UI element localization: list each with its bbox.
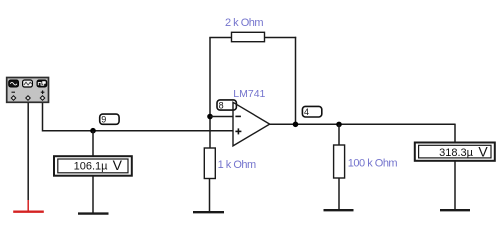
op-amp plus marking [235,128,241,134]
wire: 2k resistor right to feedback right vertical [265,37,297,39]
junction dot: output/load [336,122,342,128]
svg-text:V: V [113,157,123,173]
ground under 100k [324,209,354,211]
wire: feedback left vertical (node 8 net) from 2k down through inverting node to R1 [209,38,211,149]
function generator terminal - [11,96,16,101]
svg-text:V: V [478,144,488,160]
function generator sine button [9,80,19,87]
resistor R3 100k (load, vertical) [334,145,345,178]
wire: inverting input horizontal into op-amp [210,116,233,118]
wire: output drop to voltmeter V2 [454,124,456,142]
junction dot: output/feedback [293,122,299,128]
svg-text:1 k Ohm: 1 k Ohm [218,159,256,171]
svg-text:LM741: LM741 [233,88,265,100]
resistor R1 1k (vertical) [204,148,215,179]
svg-text:4: 4 [304,107,309,117]
wire: R1 bottom to ground [209,179,211,212]
wire: output node down to 100k load [338,124,340,145]
op-amp minus marking [235,115,241,117]
node badge 9 [100,114,119,124]
function generator terminal + [40,96,45,101]
svg-text:106.1µ: 106.1µ [74,160,109,172]
wire: feedback right vertical down to output [295,37,297,125]
wire: junction down to voltmeter V1 [92,131,94,156]
svg-text:8: 8 [219,100,224,110]
svg-text:2 k Ohm: 2 k Ohm [225,17,263,29]
ground under voltmeter V1 [78,212,109,214]
node badge 4 [302,106,321,117]
svg-text:318.3µ: 318.3µ [439,147,474,159]
voltmeter V1 (106.1u V) [54,156,132,176]
ground (red) under source [13,200,44,212]
ground under voltmeter V2 [440,209,470,211]
wire: voltmeter V2 bottom to ground [454,161,456,209]
wire: op-amp output to right voltmeter drop [270,123,456,125]
wire: source common terminal to red ground [27,103,29,201]
node badge 8 [217,100,236,110]
svg-text:9: 9 [101,115,106,125]
junction dot: inverting input node [207,114,213,120]
function generator triangle button [23,80,33,87]
svg-text:100 k Ohm: 100 k Ohm [348,158,398,170]
function generator square button [37,80,47,87]
function generator terminal common [26,96,31,101]
wire: 100k bottom to ground [338,178,340,209]
resistor R2 2k (horizontal feedback) [232,32,265,41]
wire: feedback top left segment to 2k resistor [209,37,231,39]
node junction dot at voltmeter tap [90,128,96,134]
wire: voltmeter V1 bottom to ground [92,177,94,213]
function generator plus label [41,90,45,94]
op-amp U1 triangle [233,102,270,146]
function generator minus label [12,91,16,93]
function generator body [7,78,49,103]
ground under R1 [193,211,224,213]
voltmeter V2 (318.3u V) [415,143,495,161]
wire: source + terminal down and right to op-amp non-inverting input (node 9) [43,103,234,131]
